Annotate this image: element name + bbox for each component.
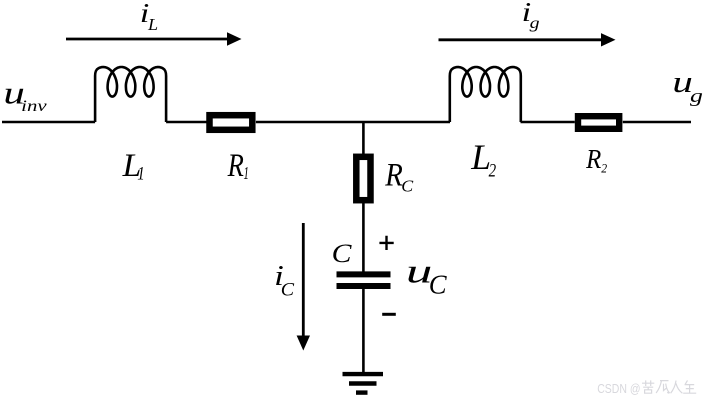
watermark hanzi 人 [671,381,683,394]
svg-text:R: R [384,156,403,193]
svg-text:C: C [401,177,413,195]
arrow iL shaft [66,38,229,41]
inductor L1 [95,67,166,122]
svg-text:L: L [147,15,158,34]
resistor R1 [210,115,253,130]
watermark hanzi 瓜 [656,381,670,394]
ground [343,374,384,393]
svg-text:C: C [429,269,448,299]
arrow ig head [601,33,616,46]
svg-text:g: g [690,85,703,106]
minus sign of capacitor [382,313,396,316]
wire: R1 to L2 through node [256,121,450,124]
wire: R2 out to u_g [623,121,691,124]
arrow iC head [297,336,310,351]
svg-text:2: 2 [601,161,607,175]
resistor RC [356,157,370,200]
watermark hanzi 生 [683,380,696,393]
wire: RC to capacitor [362,203,365,272]
wire: L2 to R2 [521,121,575,124]
svg-text:C: C [281,280,295,300]
svg-text:R: R [227,147,244,183]
wire: capacitor to ground [362,289,365,374]
inductor L2 [450,67,521,122]
plus sign of capacitor [379,236,393,250]
svg-text:C: C [332,239,353,268]
wire: left lead from u_inv into L1 [2,121,95,124]
svg-text:inv: inv [21,98,47,115]
capacitor C bottom plate [337,283,391,289]
arrow iL head [227,32,242,45]
watermark hanzi 苦 [642,380,654,393]
svg-text:2: 2 [489,160,497,181]
wire: L1 to R1 [166,121,206,124]
wire: node to RC (shunt branch) [362,122,365,154]
svg-text:1: 1 [137,163,144,184]
arrow ig shaft [439,38,603,41]
svg-text:R: R [585,144,601,175]
capacitor C top plate [337,271,391,277]
resistor R2 [578,116,619,129]
arrow iC shaft [302,223,305,337]
svg-text:CSDN @: CSDN @ [597,381,640,396]
svg-text:1: 1 [243,165,248,184]
svg-text:g: g [530,14,540,32]
